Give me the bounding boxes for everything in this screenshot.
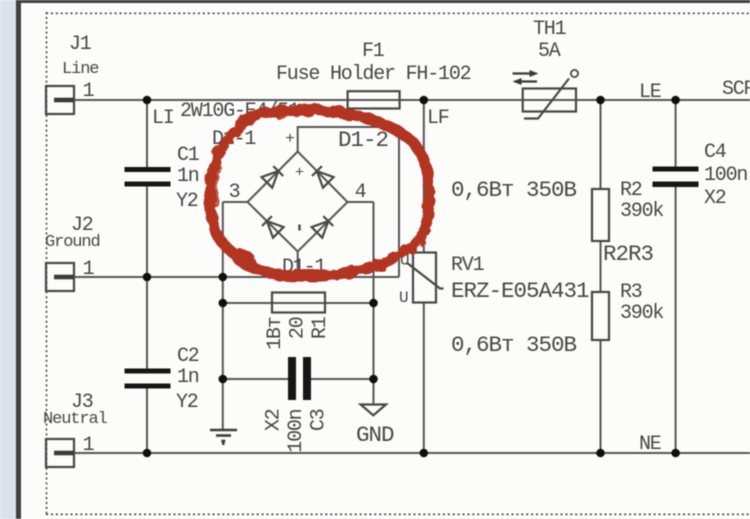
svg-text:C3: C3 (308, 409, 331, 431)
svg-text:4: 4 (355, 181, 366, 204)
bridge inner - mark (298, 225, 300, 231)
wire: C4 top drop (675, 100, 677, 167)
svg-text:RV1: RV1 (451, 254, 485, 277)
svg-text:Y2: Y2 (176, 391, 198, 414)
TH1 arrows (513, 70, 539, 85)
junction dots C3 row (219, 375, 378, 384)
svg-text:TH1: TH1 (533, 18, 567, 41)
capacitor C1 (125, 167, 171, 187)
resistor R3 (592, 292, 609, 340)
capacitor C3 (288, 357, 311, 400)
wire: bottom NE bus J3 to right edge (72, 452, 750, 454)
svg-text:+: + (285, 130, 295, 148)
window side strip (0, 0, 16, 519)
svg-text:X2: X2 (704, 187, 726, 210)
svg-text:1: 1 (83, 434, 95, 457)
svg-text:1: 1 (83, 258, 95, 281)
svg-text:20: 20 (287, 317, 310, 339)
svg-text:100n: 100n (285, 409, 308, 452)
svg-text:Line: Line (62, 60, 99, 79)
svg-text:1Вт: 1Вт (264, 317, 287, 350)
svg-text:1n: 1n (177, 366, 199, 389)
svg-text:C2: C2 (177, 345, 199, 368)
svg-text:Neutral: Neutral (43, 410, 108, 429)
svg-text:F1: F1 (362, 40, 385, 63)
wire: C4 bottom to bus (675, 187, 677, 453)
svg-text:X2: X2 (263, 409, 286, 431)
svg-text:390k: 390k (620, 302, 663, 325)
GND power symbol (361, 405, 386, 416)
connector J3 (46, 439, 74, 467)
svg-text:C1: C1 (177, 144, 200, 167)
wire: R2 top drop (600, 100, 602, 189)
window frame top line (16, 0, 750, 3)
svg-text:+: + (295, 165, 304, 182)
resistor R2 (592, 189, 609, 241)
wire: C3 row right (311, 378, 374, 380)
wire: top Line net J1 to right edge (72, 99, 750, 101)
svg-text:R2: R2 (620, 179, 642, 202)
window frame vertical line (16, 0, 21, 519)
diode D1 top-right (312, 166, 334, 188)
wire: bridge pin4 stub (348, 201, 374, 203)
wire: left column x=222.8 down to earth (222, 202, 224, 430)
diode D1 top-left (262, 166, 284, 188)
svg-text:J1: J1 (69, 33, 92, 56)
svg-text:5A: 5A (538, 40, 561, 63)
thermistor TH1 (523, 70, 578, 119)
earth ground symbol (210, 430, 237, 445)
diode D1 bottom-right (312, 216, 334, 238)
diode D1 bottom-left (262, 216, 284, 238)
capacitor C2 (125, 369, 171, 389)
wire: C2 bottom to neutral bus (146, 389, 148, 454)
svg-text:SCR: SCR (722, 78, 750, 101)
wire: bridge pin3 stub (223, 201, 248, 203)
svg-text:Ground: Ground (45, 233, 100, 252)
svg-text:0,6Вт 350В: 0,6Вт 350В (451, 177, 577, 203)
svg-text:U: U (399, 289, 409, 307)
wire: ground row from J2 (72, 276, 399, 278)
junction dots top wire (143, 96, 680, 105)
wire: bridge bottom vertex stub to ground row (297, 252, 299, 278)
wire: C1 bottom to ground row to C2 top (146, 187, 148, 369)
svg-text:LF: LF (427, 107, 449, 130)
resistor R1 (272, 293, 325, 313)
red marker circle annotation (210, 110, 429, 276)
svg-text:3: 3 (229, 181, 240, 204)
svg-text:GND: GND (356, 422, 394, 448)
svg-text:Fuse Holder FH-102: Fuse Holder FH-102 (276, 63, 471, 86)
svg-text:R1: R1 (309, 316, 332, 339)
wire: top rail to bridge + (298, 126, 400, 128)
varistor RV1 (407, 253, 444, 303)
wire: C3 row left (223, 378, 288, 380)
svg-text:R3: R3 (620, 281, 642, 304)
svg-text:0,6Вт 350В: 0,6Вт 350В (451, 332, 577, 358)
junction dots bottom bus (143, 449, 680, 458)
sheet dashed border bottom (46, 513, 750, 515)
connector J1 (46, 86, 74, 114)
svg-text:NE: NE (639, 433, 661, 456)
wire: RV1 bottom to bus (423, 303, 425, 454)
connector J2 (46, 263, 74, 291)
svg-text:100n: 100n (704, 164, 747, 187)
wire: LF drop to RV1 top (423, 100, 425, 253)
svg-text:LI: LI (152, 107, 174, 130)
wire: stub down to bridge top vertex (297, 126, 299, 152)
wire: R3 bottom to bus (600, 340, 602, 453)
sheet dashed border left (46, 12, 48, 515)
svg-text:LE: LE (639, 81, 661, 104)
svg-text:C4: C4 (704, 141, 726, 164)
wire: riser from ground row up at x=399 (398, 127, 400, 277)
diode bridge D1 diamond (248, 152, 348, 252)
wire: R2R3 link (600, 241, 602, 292)
wire: R1 row (223, 302, 374, 304)
wire: right column x=373.5 down to GND (373, 202, 375, 405)
svg-text:ERZ-E05A431: ERZ-E05A431 (451, 278, 589, 304)
sheet dashed border top (46, 12, 750, 14)
svg-text:1: 1 (83, 80, 95, 103)
svg-text:Y2: Y2 (176, 190, 198, 213)
wire: C1 branch upper (146, 100, 148, 167)
svg-text:D1-2: D1-2 (338, 127, 388, 153)
fuse F1 (348, 91, 400, 108)
svg-text:390k: 390k (620, 200, 663, 223)
svg-text:R2R3: R2R3 (603, 241, 654, 267)
svg-text:1n: 1n (177, 165, 199, 188)
junction dots ground row (143, 273, 302, 282)
junction dots R1 row (219, 299, 378, 308)
capacitor C4 (653, 167, 699, 188)
